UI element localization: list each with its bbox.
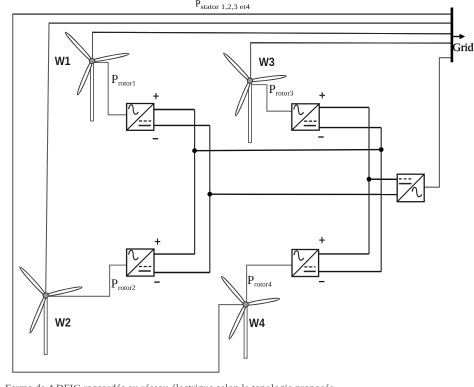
- wire stator W3: vertical up then top line 4: [251, 43, 451, 81]
- minus sign U4: [319, 281, 325, 283]
- wire vertical - link U1/U2: [209, 125, 211, 272]
- plus sign U2: [155, 239, 161, 245]
- minus sign U1: [153, 138, 159, 140]
- wire U1 - output: [154, 124, 210, 126]
- converter U1 (AC/DC) for W1: [127, 104, 154, 131]
- wire U4 + output: [319, 253, 369, 255]
- svg-text:W4: W4: [249, 316, 265, 330]
- top stator feeder line 3 (dark run): [93, 32, 452, 34]
- wire inverter AC output to grid bar: [424, 58, 450, 188]
- wire U3 - output: [319, 127, 381, 129]
- wire rotor W2 hub to converter U2 input: [46, 265, 127, 296]
- wind turbine W2: [19, 266, 83, 355]
- converter U3 (AC/DC) for W3: [292, 104, 319, 130]
- minus sign U3: [318, 136, 324, 138]
- wire vertical - link U3/U4: [380, 128, 382, 272]
- wire vertical + link U3/U4: [368, 107, 370, 254]
- wind turbine W1: [64, 31, 129, 121]
- wind turbine W4: [220, 275, 280, 358]
- wire to inverter plus input: [369, 178, 397, 180]
- wire DC bus plus horizontal: [195, 150, 382, 151]
- plus sign U3: [319, 92, 325, 98]
- wire stator W1: vertical up then top line 3: [93, 32, 452, 61]
- converter U2 (AC/DC) for W2: [127, 249, 154, 276]
- wire rotor W1 hub to converter U1 input: [93, 63, 127, 115]
- junction dot minus bus left: [207, 192, 212, 197]
- svg-text:W1: W1: [55, 54, 71, 68]
- minus sign U2: [154, 281, 160, 283]
- plus sign U4: [319, 237, 325, 243]
- wire rotor W3 hub to converter U3 input: [251, 85, 292, 112]
- wire U3 + output: [319, 106, 369, 108]
- top stator feeder line 4 (dark run): [251, 42, 451, 44]
- converter U4 (AC/DC) for W4: [292, 250, 319, 277]
- wire rotor W4 hub to converter U4 input: [247, 265, 292, 304]
- grid arrow: [453, 36, 460, 38]
- wire U2 + output: [154, 253, 195, 255]
- junction dot plus bus left: [192, 148, 197, 153]
- junction dot inverter plus: [367, 177, 372, 182]
- svg-text:W2: W2: [55, 316, 71, 330]
- wire U2 - output: [154, 272, 210, 274]
- top stator feeder line 2 (dark run): [49, 22, 451, 24]
- grid bus bar: [451, 8, 454, 63]
- wire vertical + link U1/U2: [194, 110, 196, 255]
- svg-text:Grid: Grid: [453, 42, 474, 54]
- main grid-side inverter (DC/AC): [397, 174, 424, 202]
- wire DC bus minus horizontal to inverter: [210, 193, 397, 195]
- wind turbine W3: [222, 52, 286, 143]
- wire U1 + output: [154, 109, 195, 111]
- wire stator W2: slanted line up then top line 2: [46, 23, 451, 295]
- plus sign U1: [153, 93, 159, 99]
- wire U4 - output: [319, 271, 382, 273]
- junction dot plus bus right: [379, 147, 384, 152]
- svg-text:W3: W3: [259, 55, 275, 69]
- top stator feeder line 1 (dark run): [13, 13, 451, 15]
